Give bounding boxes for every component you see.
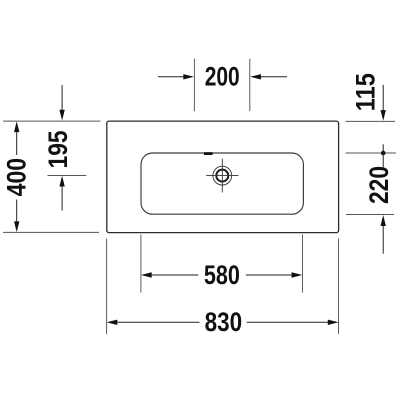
dim 220 lower arrow (381, 215, 386, 226)
dim 200 left arrow (158, 76, 184, 78)
tap centre reference line left (48, 175, 87, 177)
svg-text:195: 195 (43, 130, 73, 168)
dim 400 upper arrow (14, 121, 19, 132)
tap hole symbol outer circle (213, 166, 232, 185)
bottom extension line basin right (302, 235, 304, 293)
dim 200 right arrow (261, 76, 288, 78)
bottom extension line outer right (338, 239, 340, 335)
dim 200 extension line left (193, 59, 195, 112)
dim 115 arrow (382, 85, 384, 111)
overflow mark (204, 152, 213, 155)
svg-text:400: 400 (1, 158, 31, 197)
tap hole crosshair vertical (221, 159, 223, 193)
svg-text:220: 220 (364, 166, 394, 204)
dim 195 lower arrow (59, 176, 64, 187)
tap hole symbol inner circle (216, 170, 228, 182)
svg-text:115: 115 (351, 73, 381, 111)
right extension line basin front (346, 214, 394, 216)
dim 580 left arrow (141, 272, 152, 277)
left extension line bottom edge (3, 231, 99, 233)
washbasin outer rectangle (107, 121, 339, 233)
dim 830 left arrow (107, 320, 118, 325)
svg-text:580: 580 (204, 260, 240, 290)
dot stub line (382, 144, 384, 167)
svg-text:830: 830 (205, 307, 243, 337)
shared dot marker (381, 151, 386, 156)
left extension line top edge (3, 120, 101, 122)
dim 400 lower arrow (16, 200, 18, 222)
tap hole crosshair horizontal (206, 175, 238, 177)
dim 580 right arrow (246, 274, 292, 276)
dim 200 extension line right (249, 59, 251, 112)
bottom extension line outer left (106, 239, 108, 335)
right extension line top edge (346, 120, 396, 122)
dim 830 right arrow (247, 321, 328, 323)
basin inner bowl outline (141, 153, 303, 214)
right extension line basin rim (346, 152, 397, 154)
dim 195 upper arrow (61, 85, 63, 110)
bottom extension line basin left (140, 235, 142, 293)
svg-text:200: 200 (205, 62, 240, 92)
